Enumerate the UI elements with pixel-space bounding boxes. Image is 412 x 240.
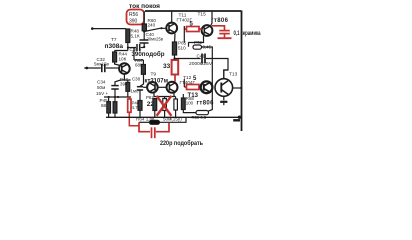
wire: emitter bus y=80 bbox=[121, 79, 131, 81]
svg-text:390подобр: 390подобр bbox=[132, 51, 165, 58]
node junction at T11 emitter bbox=[172, 44, 174, 46]
wire between T9 bases bbox=[158, 86, 167, 88]
svg-text:68К: 68К bbox=[135, 63, 143, 68]
wire: C41 row bbox=[175, 59, 229, 79]
transistor T9 left bbox=[143, 82, 158, 97]
resistor (crossed out) bbox=[163, 97, 167, 118]
svg-text:20мх25в: 20мх25в bbox=[147, 36, 164, 41]
svg-text:33: 33 bbox=[163, 63, 171, 70]
svg-text:РТ2: РТ2 bbox=[194, 40, 202, 45]
red resistor 33 bbox=[172, 60, 179, 82]
red added resistor (at 4,7k) bbox=[128, 97, 139, 126]
bottom rail bbox=[106, 116, 241, 118]
svg-text:390: 390 bbox=[129, 19, 138, 25]
svg-text:Т7: Т7 bbox=[111, 37, 117, 43]
resistor (below T9 left) bbox=[153, 99, 157, 118]
svg-text:С41: С41 bbox=[197, 54, 206, 59]
node junction at C40/C36 bbox=[143, 46, 145, 48]
resistor R68 bbox=[181, 94, 196, 113]
svg-text:10К: 10К bbox=[119, 56, 127, 61]
resistor R49 bbox=[113, 97, 117, 117]
node junction at R48/C36 bbox=[127, 47, 129, 49]
capacitor C40 bbox=[140, 32, 149, 48]
red X cross-out bbox=[157, 96, 172, 116]
svg-text:5,1К: 5,1К bbox=[131, 33, 140, 38]
red capacitor 0,1 ceramic bbox=[212, 26, 232, 38]
resistor РТ2 0,45 bbox=[193, 45, 212, 111]
capacitor C34 bbox=[111, 80, 120, 97]
svg-text:гт806: гт806 bbox=[197, 101, 215, 107]
svg-text:2000м25V: 2000м25V bbox=[189, 61, 213, 66]
transistor T13 (output, big) bbox=[215, 70, 241, 100]
svg-text:0,45: 0,45 bbox=[203, 45, 212, 50]
emitter bar under T13 bbox=[220, 102, 227, 105]
transistor T15 bbox=[202, 11, 213, 36]
resistor R59 0,5 bbox=[196, 111, 209, 115]
wire: base feed of T11 bbox=[144, 28, 166, 31]
resistor 390 (emitter of T7) bbox=[126, 80, 130, 97]
node junction at R45 bbox=[108, 96, 110, 98]
wire: left stub of red resistor bbox=[183, 26, 185, 43]
svg-text:68: 68 bbox=[101, 103, 107, 108]
node junction at R49 bbox=[117, 96, 119, 98]
wire: upper left bias feed bbox=[92, 28, 126, 30]
wire: mid-left node row y=97 bbox=[104, 96, 131, 98]
red bypass loop with 220p bbox=[139, 122, 169, 138]
svg-text:Т9: Т9 bbox=[151, 72, 157, 78]
svg-text:С34: С34 bbox=[97, 80, 106, 85]
capacitor C36 bbox=[128, 44, 144, 51]
svg-text:22: 22 bbox=[147, 101, 155, 108]
red resistor 5 (base of T15) bbox=[184, 27, 202, 32]
node junction at C34 bbox=[114, 96, 116, 98]
svg-text:1м0: 1м0 bbox=[131, 89, 139, 94]
svg-text:390: 390 bbox=[120, 81, 128, 86]
svg-text:240: 240 bbox=[148, 23, 156, 28]
resistor R57 bbox=[134, 48, 145, 86]
transistor T7 bbox=[119, 63, 130, 80]
svg-text:0,1 керамика: 0,1 керамика bbox=[234, 31, 261, 37]
svg-text:5мх15в: 5мх15в bbox=[94, 62, 110, 67]
wire: top supply rail bbox=[145, 10, 241, 12]
svg-text:С38: С38 bbox=[132, 77, 141, 82]
svg-text:R59 0,5: R59 0,5 bbox=[192, 115, 207, 120]
svg-text:Т13: Т13 bbox=[229, 72, 238, 78]
resistor R46 4,7к bbox=[138, 98, 142, 117]
svg-text:4.7К: 4.7К bbox=[132, 105, 141, 110]
svg-text:100: 100 bbox=[186, 101, 194, 106]
svg-text:15V +: 15V + bbox=[96, 91, 108, 96]
resistor R48 bbox=[115, 29, 130, 52]
red resistor 5 (base of T13 output) bbox=[184, 85, 201, 90]
svg-text:220р подобрать: 220р подобрать bbox=[160, 139, 203, 147]
svg-text:гт806: гт806 bbox=[211, 18, 229, 24]
capacitor C41 2000м25V bbox=[202, 54, 205, 64]
chassis bar at output bbox=[233, 119, 240, 121]
resistor R45 bbox=[107, 97, 111, 117]
svg-text:510: 510 bbox=[178, 45, 186, 50]
resistor R60 bbox=[142, 11, 146, 31]
node junction at R60/C40 bbox=[143, 30, 145, 32]
capacitor 50м15V bbox=[174, 97, 178, 118]
transistor T11 bbox=[166, 11, 177, 33]
red box around R56 390 bbox=[127, 10, 145, 25]
resistor R65 bbox=[172, 34, 176, 60]
wire: stub above red resistor bbox=[183, 79, 185, 87]
resistor R44 bbox=[113, 52, 120, 66]
wire: right vertical rail bbox=[241, 10, 243, 131]
input wire + C32 bbox=[85, 67, 88, 70]
svg-text:Р63: Р63 bbox=[146, 95, 154, 100]
svg-text:R56: R56 bbox=[129, 12, 138, 18]
wire: T15 emitter to RT2 bbox=[189, 36, 204, 47]
transistor T12 (solid) bbox=[201, 81, 213, 93]
transistor T9 right bbox=[167, 82, 178, 97]
wire: emitter row y=96.5 bbox=[154, 96, 176, 98]
node junction T13 collector at rail bbox=[240, 87, 242, 89]
svg-text:50м: 50м bbox=[97, 85, 105, 90]
capacitor C38 bbox=[137, 87, 143, 98]
svg-text:Т15: Т15 bbox=[198, 12, 207, 18]
svg-text:п308а: п308а bbox=[105, 44, 124, 50]
